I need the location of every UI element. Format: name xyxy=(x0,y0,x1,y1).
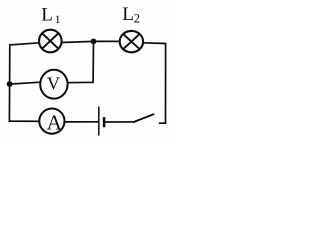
label L1 xyxy=(41,4,61,26)
wire: voltmeter right terminal up to node A xyxy=(67,41,93,82)
wire: left rail lower segment (node B down to bottom-left corner, to ammeter) xyxy=(9,84,39,121)
svg-text:V: V xyxy=(47,74,60,94)
wire: top-left corner run (L1 left terminal to left rail, down to node B) xyxy=(10,43,40,84)
svg-text:L: L xyxy=(41,4,53,25)
switch S (open blade) xyxy=(133,114,154,122)
node A (junction dot on top wire) xyxy=(91,39,97,45)
voltmeter V xyxy=(40,70,67,99)
wire: L2 right terminal to top-right corner and down right rail to switch contact xyxy=(143,43,166,123)
lamp L2 xyxy=(120,31,143,52)
svg-text:A: A xyxy=(47,110,63,134)
wire: battery negative plate to switch pivot xyxy=(104,121,133,123)
ammeter A xyxy=(39,109,64,135)
svg-text:L: L xyxy=(122,4,134,25)
wire: node B to voltmeter left terminal xyxy=(10,82,40,84)
wire: L1 right terminal to node A xyxy=(61,41,93,42)
label L2 xyxy=(122,4,140,25)
battery cell: long positive plate xyxy=(98,107,100,136)
battery cell: short negative plate xyxy=(103,117,106,127)
node B (junction dot on left rail) xyxy=(7,81,13,87)
svg-text:1: 1 xyxy=(55,14,61,26)
wire: node A to L2 left terminal xyxy=(94,40,121,42)
wire: ammeter right terminal to battery positive plate xyxy=(65,121,99,123)
lamp L1 xyxy=(39,30,62,53)
svg-text:2: 2 xyxy=(134,12,140,26)
